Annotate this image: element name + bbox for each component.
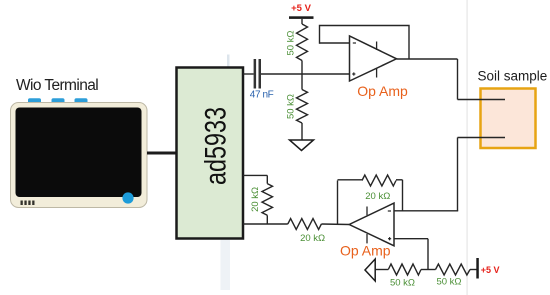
wire feedback U2 upper input [320,42,350,44]
wire down to divider junction [427,239,429,270]
svg-text:Op Amp: Op Amp [357,83,408,99]
op-amp U2 (voltage follower) [350,36,397,81]
wire soil sample bottom electrode [458,137,506,139]
wire R7 to supply bar [470,269,478,271]
svg-text:Soil sample: Soil sample [478,69,548,84]
svg-text:ad5933: ad5933 [200,107,233,185]
svg-text:50 kΩ: 50 kΩ [286,30,297,55]
wire stub to R3 [266,175,268,183]
wire feedback down to U3 input [402,180,404,211]
resistor R5 20 kOhm (feedback) [362,175,396,186]
supply +5 V (bottom) [476,258,499,279]
wire R4 to U3 output [321,223,349,226]
wire R3 to bottom wire [266,215,268,224]
svg-text:20 kΩ: 20 kΩ [300,233,325,244]
wire U3 feedback riser [337,181,339,225]
svg-text:50 kΩ: 50 kΩ [286,94,297,119]
wire chip bottom pin to R4 [243,223,288,225]
op-amp U3 (inverting amplifier) [349,203,394,246]
svg-text:+5 V: +5 V [481,265,500,275]
svg-text:+5 V: +5 V [291,3,311,14]
resistor R4 20 kOhm (horizontal) [288,219,322,230]
wire feedback to R5 [338,179,363,181]
resistor R7 50 kOhm [436,264,471,275]
resistor R2 50 kOhm (lower) [297,90,308,124]
resistor R1 50 kOhm (upper) [297,24,308,61]
ground (bottom section, left pointing) [365,259,375,281]
resistor R6 50 kOhm [388,264,421,275]
Wio Terminal device [11,98,148,207]
wire R1 to node [301,61,303,75]
soil sample cell [481,89,536,149]
wire U2 output [397,58,458,60]
wire ground to R6 [375,269,388,271]
wire to U3 inverting input [394,210,458,212]
wire R5 to corner [396,179,403,181]
wire R2 to ground [301,123,303,140]
wire down to U3 input [457,138,459,211]
wire Wio Terminal to ad5933 [147,152,177,155]
ground (top section) [290,140,314,151]
wire down to soil sample top electrode [457,59,459,100]
svg-text:47 nF: 47 nF [250,90,274,101]
resistor R3 20 kOhm (vertical) [262,184,273,216]
svg-text:Op Amp: Op Amp [340,243,391,259]
wire feedback loop U2 [320,26,410,60]
svg-text:20 kΩ: 20 kΩ [250,187,261,212]
IC U1 ad5933 [177,68,244,239]
wire R6 to R7 [421,269,436,271]
svg-text:20 kΩ: 20 kΩ [365,191,390,202]
wire capacitor to op-amp input node [261,73,350,75]
wire node to R2 [301,74,303,90]
supply +5 V (top) [289,3,314,24]
wire U3 non-inverting input [394,238,428,240]
wire chip pin to R3 [243,174,267,176]
wire into soil sample (top electrode) [458,99,506,101]
wire chip pin to capacitor [243,73,254,75]
svg-text:50 kΩ: 50 kΩ [390,278,415,289]
capacitor C1 47 nF [254,59,261,89]
svg-text:50 kΩ: 50 kΩ [436,277,461,288]
svg-text:Wio Terminal: Wio Terminal [16,77,98,94]
